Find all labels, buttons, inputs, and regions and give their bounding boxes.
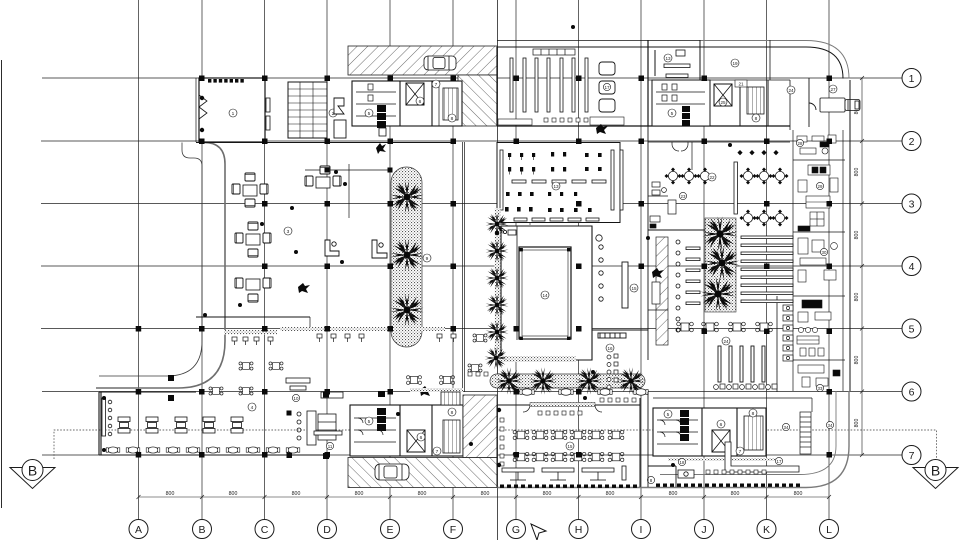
chairs rows bottom right [706, 470, 766, 474]
label 19 [731, 59, 739, 67]
grid line col A [138, 0, 140, 519]
row7 columns [136, 452, 142, 458]
label 25 [719, 98, 727, 106]
svg-text:H: H [575, 524, 583, 536]
label 24b [722, 337, 730, 345]
label 10 [292, 394, 299, 401]
svg-text:13: 13 [553, 184, 559, 189]
dimension labels 800 right [854, 106, 860, 428]
tree G5 [486, 321, 509, 344]
svg-text:6: 6 [420, 435, 423, 441]
grid line col D [326, 0, 328, 519]
svg-text:800: 800 [229, 491, 238, 497]
row4 columns [262, 264, 268, 270]
restaurant walls [497, 398, 640, 487]
WC fixtures black stack core A [377, 105, 386, 136]
axis bubble 6 [902, 382, 921, 401]
pool corner dots [520, 248, 571, 340]
grid line row 3 [41, 203, 902, 205]
axis bubble F [444, 520, 463, 539]
svg-text:800: 800 [481, 491, 490, 497]
hall top bench row [533, 49, 575, 55]
svg-text:1: 1 [909, 73, 915, 85]
svg-text:800: 800 [166, 491, 175, 497]
hatch walkway left [656, 237, 668, 345]
decor glyph at 600,130 [596, 124, 608, 134]
grid line col K [766, 0, 768, 519]
svg-text:2: 2 [909, 136, 915, 148]
palm 1 [391, 181, 424, 214]
grid line col H [578, 0, 580, 519]
stair core D [744, 416, 763, 450]
right wing partition walls [793, 159, 845, 161]
svg-text:24: 24 [723, 339, 729, 344]
label 15 [566, 442, 574, 450]
svg-text:G: G [512, 524, 520, 536]
svg-text:800: 800 [854, 419, 860, 428]
svg-text:18: 18 [680, 460, 685, 465]
axis bubble 4 [902, 257, 921, 276]
svg-text:29: 29 [818, 184, 823, 189]
right wing outer wall [849, 80, 851, 391]
label 5d [664, 410, 672, 418]
svg-text:24: 24 [788, 88, 794, 93]
svg-text:28: 28 [798, 141, 803, 146]
stair core B [747, 87, 764, 114]
label 27 [829, 85, 837, 93]
svg-text:F: F [450, 524, 456, 536]
kerb top-left outer [96, 143, 225, 389]
grid line col L [828, 0, 830, 519]
svg-text:800: 800 [731, 491, 740, 497]
gym bench bars [500, 150, 623, 221]
tree T2 [529, 367, 556, 394]
stair core C upper [441, 392, 460, 405]
axis bubble 2 [902, 132, 921, 151]
grid line col J [703, 0, 705, 519]
dining outer walls [99, 392, 330, 455]
svg-text:K: K [763, 524, 770, 536]
svg-text:8: 8 [451, 116, 454, 122]
rooms block x648-790 top [648, 40, 790, 130]
svg-text:I: I [640, 524, 643, 536]
room 18 basin [648, 466, 694, 487]
label 2 [329, 109, 337, 117]
right courtyard stipple band [705, 218, 736, 312]
trellis stipple band [490, 374, 645, 388]
stair core C lower [443, 420, 460, 453]
ladder strip right [800, 412, 811, 454]
truck bay walls [809, 78, 816, 127]
grid line row 6 [42, 391, 902, 393]
label 6 core A [416, 97, 424, 105]
terrace chairs row [232, 337, 273, 345]
entry stipple bar [530, 403, 595, 407]
tree G2 [486, 240, 509, 263]
palm 2 [391, 239, 424, 272]
label 7d [736, 447, 744, 455]
bottom right walls [648, 392, 812, 487]
elevator core D [712, 430, 730, 452]
svg-text:6: 6 [720, 422, 723, 428]
hall bottom small chairs row [498, 117, 624, 125]
axis bubble K [757, 520, 776, 539]
hall right rounded tables [599, 62, 615, 112]
row1 columns [199, 76, 205, 82]
grid line col I [640, 0, 642, 519]
svg-text:17: 17 [777, 459, 782, 464]
label 29 [816, 182, 823, 189]
interior columns [287, 453, 293, 459]
label 8e [647, 476, 654, 483]
axis bubble C [255, 520, 274, 539]
svg-text:800: 800 [355, 491, 364, 497]
label 7 core A [432, 80, 440, 88]
label 8c [448, 408, 456, 416]
label 33 [816, 384, 823, 391]
WC stalls core C [354, 418, 396, 442]
section line B-B [54, 430, 937, 459]
chairs+counter row under slats [714, 384, 777, 389]
row5 columns [136, 326, 142, 332]
svg-text:800: 800 [606, 491, 615, 497]
svg-text:7: 7 [909, 450, 915, 462]
room 16 [592, 330, 648, 338]
terrace stipple band [224, 330, 277, 335]
palm R2 [704, 245, 739, 280]
bar 11 [286, 378, 343, 445]
dotted edge band core D [668, 458, 776, 461]
label 28 [796, 139, 803, 146]
svg-text:800: 800 [854, 168, 860, 177]
label 5b [668, 109, 676, 117]
svg-text:27: 27 [830, 87, 836, 92]
reception desk [325, 240, 339, 256]
banquet round tables [665, 168, 682, 185]
axis bubble 7 [902, 446, 921, 465]
svg-text:3: 3 [909, 199, 915, 211]
grid line col E [389, 0, 391, 519]
ramp hatch bottom L [348, 395, 497, 488]
axis bubble 1 [902, 69, 921, 88]
terrace tables [239, 362, 253, 370]
bottom slats room 24 [718, 346, 765, 382]
svg-text:23: 23 [681, 194, 686, 199]
services core A top-left: outline [352, 81, 462, 126]
decor glyph duck [652, 268, 664, 278]
axis bubble I [632, 520, 651, 539]
top hall walls (x 497-648) [497, 40, 843, 126]
svg-text:E: E [386, 524, 393, 536]
svg-text:800: 800 [854, 293, 860, 302]
svg-text:5: 5 [671, 111, 674, 117]
banquet hall walls [648, 126, 790, 230]
grid line col B [201, 0, 203, 519]
label 13b [664, 54, 672, 62]
tree G3 [486, 267, 509, 290]
room 1 door [199, 95, 207, 119]
label 6d [717, 420, 725, 428]
svg-text:7: 7 [739, 449, 742, 455]
pool hall walls [501, 226, 592, 360]
elevator core B [714, 84, 732, 106]
label 8 core A [448, 114, 456, 122]
mid rooms walls [648, 142, 692, 360]
grid line col C [264, 0, 266, 519]
room 17 bottom-right counter [725, 442, 799, 472]
label 4 [248, 403, 256, 411]
svg-text:8: 8 [755, 116, 758, 122]
kitchen counters vertical bars [510, 58, 588, 112]
services core C outline [350, 405, 463, 456]
svg-text:C: C [261, 524, 269, 536]
mouse cursor [531, 524, 546, 540]
svg-text:16: 16 [607, 346, 613, 351]
svg-text:15: 15 [631, 286, 637, 291]
svg-text:5: 5 [909, 324, 915, 336]
kerb top-left inner [99, 143, 202, 377]
WC black stack core D [680, 410, 689, 441]
svg-text:3: 3 [287, 229, 290, 235]
svg-text:5: 5 [667, 412, 670, 418]
black junction dots [102, 25, 732, 467]
pool deck item [503, 230, 516, 235]
dimension line bottom [137, 495, 832, 499]
axis bubble L [820, 520, 839, 539]
dining table pairs [118, 417, 130, 433]
decor glyph bird 2 [298, 283, 310, 293]
palm 3 [391, 294, 424, 327]
svg-text:5: 5 [368, 111, 371, 117]
serving counters [502, 466, 626, 480]
tree T3 [575, 367, 602, 394]
sofa cluster 1 [232, 173, 268, 207]
label 34b [826, 421, 833, 428]
label 1 [229, 109, 237, 117]
label 8d [749, 409, 757, 417]
svg-text:6: 6 [909, 387, 915, 399]
label 9 [423, 254, 431, 262]
label 21 [735, 80, 747, 87]
WC stalls core A [356, 84, 396, 116]
label 13 [552, 182, 560, 190]
stair core A [443, 88, 458, 120]
axis bubble 3 [902, 194, 921, 213]
svg-text:800: 800 [418, 491, 427, 497]
svg-text:L: L [826, 524, 832, 536]
palm R1 [702, 216, 737, 251]
label 30 [820, 248, 827, 255]
WC stalls core D [657, 420, 698, 444]
svg-text:J: J [701, 524, 706, 536]
label 22 [708, 173, 716, 181]
svg-text:11: 11 [328, 444, 333, 449]
grid line col F [452, 0, 454, 519]
stippled planter band [391, 167, 422, 347]
gym room 13 walls [497, 143, 620, 223]
band chairs [317, 334, 456, 342]
loading truck [820, 98, 860, 112]
axis bubble H [569, 520, 588, 539]
svg-text:B: B [28, 463, 37, 479]
kerb bottom-right inner [660, 391, 836, 475]
restaurant tables grid row1 [513, 430, 529, 439]
tree G6 [485, 347, 508, 370]
svg-text:8: 8 [451, 410, 454, 416]
long stipple band mid [280, 327, 445, 331]
svg-text:800: 800 [543, 491, 552, 497]
decor glyph bird 1 [376, 143, 386, 154]
svg-text:10: 10 [294, 396, 299, 401]
elevator core C [407, 430, 425, 452]
WC fixtures black stack core B [682, 106, 690, 126]
sofa cluster 5 [235, 278, 271, 302]
svg-text:4: 4 [251, 405, 254, 411]
label 24 [787, 86, 795, 94]
tree G1 [486, 213, 509, 236]
chair diamonds row top [737, 150, 778, 155]
room 1 walls [196, 78, 265, 142]
banquet long bar [734, 162, 737, 214]
svg-text:34: 34 [828, 423, 833, 428]
car top [424, 56, 456, 70]
walkway circles col [676, 240, 680, 332]
elevator core A [406, 83, 424, 105]
room16 basin circles column [607, 354, 618, 389]
section marker B right [913, 460, 958, 489]
svg-text:6: 6 [419, 99, 422, 105]
grid line row 4 [41, 265, 902, 267]
dimension labels 800 bottom [166, 491, 803, 497]
grid line row 7 [42, 454, 902, 456]
label 15c [630, 284, 638, 292]
label 11 [326, 442, 333, 449]
label 34 [782, 423, 789, 430]
room 1 window dashes [208, 79, 244, 83]
label 5 core A [365, 109, 373, 117]
tree G4 [486, 294, 509, 317]
svg-text:A: A [135, 524, 142, 536]
left porch wall [1, 60, 3, 508]
washbasin column right [783, 305, 793, 361]
svg-text:21: 21 [738, 82, 744, 87]
core D outline [653, 408, 766, 456]
label 17 [603, 83, 610, 90]
buffet slat rows [741, 236, 793, 303]
stair hall 2 [288, 82, 327, 138]
svg-text:1: 1 [232, 111, 235, 117]
svg-text:D: D [323, 524, 331, 536]
svg-text:9: 9 [426, 256, 429, 262]
dining left bench [102, 398, 112, 436]
grid line row 2 [41, 140, 902, 142]
car bottom [375, 464, 409, 480]
grid line row 5 [41, 328, 902, 330]
palm R3 [700, 276, 735, 311]
svg-text:7: 7 [436, 449, 439, 455]
office items mid-left [650, 182, 676, 304]
window dash row bottom right [656, 484, 800, 487]
svg-text:15: 15 [568, 444, 573, 449]
gym equipment rows [505, 152, 602, 212]
svg-text:B: B [931, 463, 940, 479]
row6 columns [136, 389, 142, 395]
window dash row bottom [500, 485, 637, 488]
axis bubble 5 [902, 319, 921, 338]
restaurant tables grid row2 [513, 452, 529, 461]
stipple exit band [499, 356, 576, 362]
courtyard bottom tables [677, 322, 694, 332]
ramp hatch top (drive lane) [348, 46, 497, 126]
svg-text:13: 13 [665, 56, 671, 61]
lobby south wall [196, 142, 530, 392]
svg-text:8: 8 [752, 411, 755, 417]
svg-text:30: 30 [822, 250, 827, 255]
svg-text:800: 800 [794, 491, 803, 497]
site kerb roads (gray double curves) [96, 41, 849, 488]
courtyard tables mid [440, 376, 455, 385]
oval chairs row [106, 447, 120, 453]
label 23 [679, 192, 686, 199]
row3 columns [262, 201, 268, 207]
decor glyph bird 3 [420, 386, 432, 396]
axis bubble G [507, 520, 526, 539]
label 7c [433, 447, 441, 455]
WC stalls core B [656, 84, 705, 104]
label 3 [284, 227, 292, 235]
label 16 [606, 344, 614, 352]
label 8b [752, 114, 760, 122]
right wing equipment clutter [797, 135, 840, 387]
section marker B left [10, 460, 55, 489]
kerb top-right outer arc [700, 41, 849, 79]
axis bubble B [193, 520, 212, 539]
bar 15 [622, 262, 628, 308]
axis bubble E [381, 520, 400, 539]
svg-text:34: 34 [784, 425, 789, 430]
label 6c [417, 433, 425, 441]
svg-text:7: 7 [435, 82, 438, 88]
svg-text:33: 33 [818, 386, 823, 391]
WC black stack core C [377, 391, 386, 431]
axis bubble A [129, 520, 148, 539]
svg-text:800: 800 [669, 491, 678, 497]
entrance canopy piece x330-350 [334, 98, 346, 138]
svg-text:25: 25 [720, 100, 726, 105]
svg-text:5: 5 [368, 419, 371, 425]
lobby plant dots [203, 168, 393, 318]
label 5c [365, 417, 373, 425]
svg-text:19: 19 [732, 61, 738, 66]
axis bubble J [695, 520, 714, 539]
building edge long vertical at G [497, 0, 499, 540]
label 18 [678, 458, 685, 465]
svg-text:800: 800 [854, 231, 860, 240]
svg-text:4: 4 [909, 261, 915, 273]
svg-text:B: B [198, 524, 205, 536]
pool basin room 14 [519, 247, 571, 339]
svg-text:22: 22 [709, 175, 715, 180]
chairs row below entry [468, 372, 636, 415]
sofa cluster 4 [235, 222, 271, 257]
row2 columns [199, 139, 205, 145]
dimension line right [860, 76, 864, 457]
axis bubble D [318, 520, 337, 539]
svg-text:800: 800 [292, 491, 301, 497]
label 17d [775, 457, 782, 464]
svg-text:14: 14 [542, 293, 548, 298]
tree T4 [617, 367, 644, 394]
